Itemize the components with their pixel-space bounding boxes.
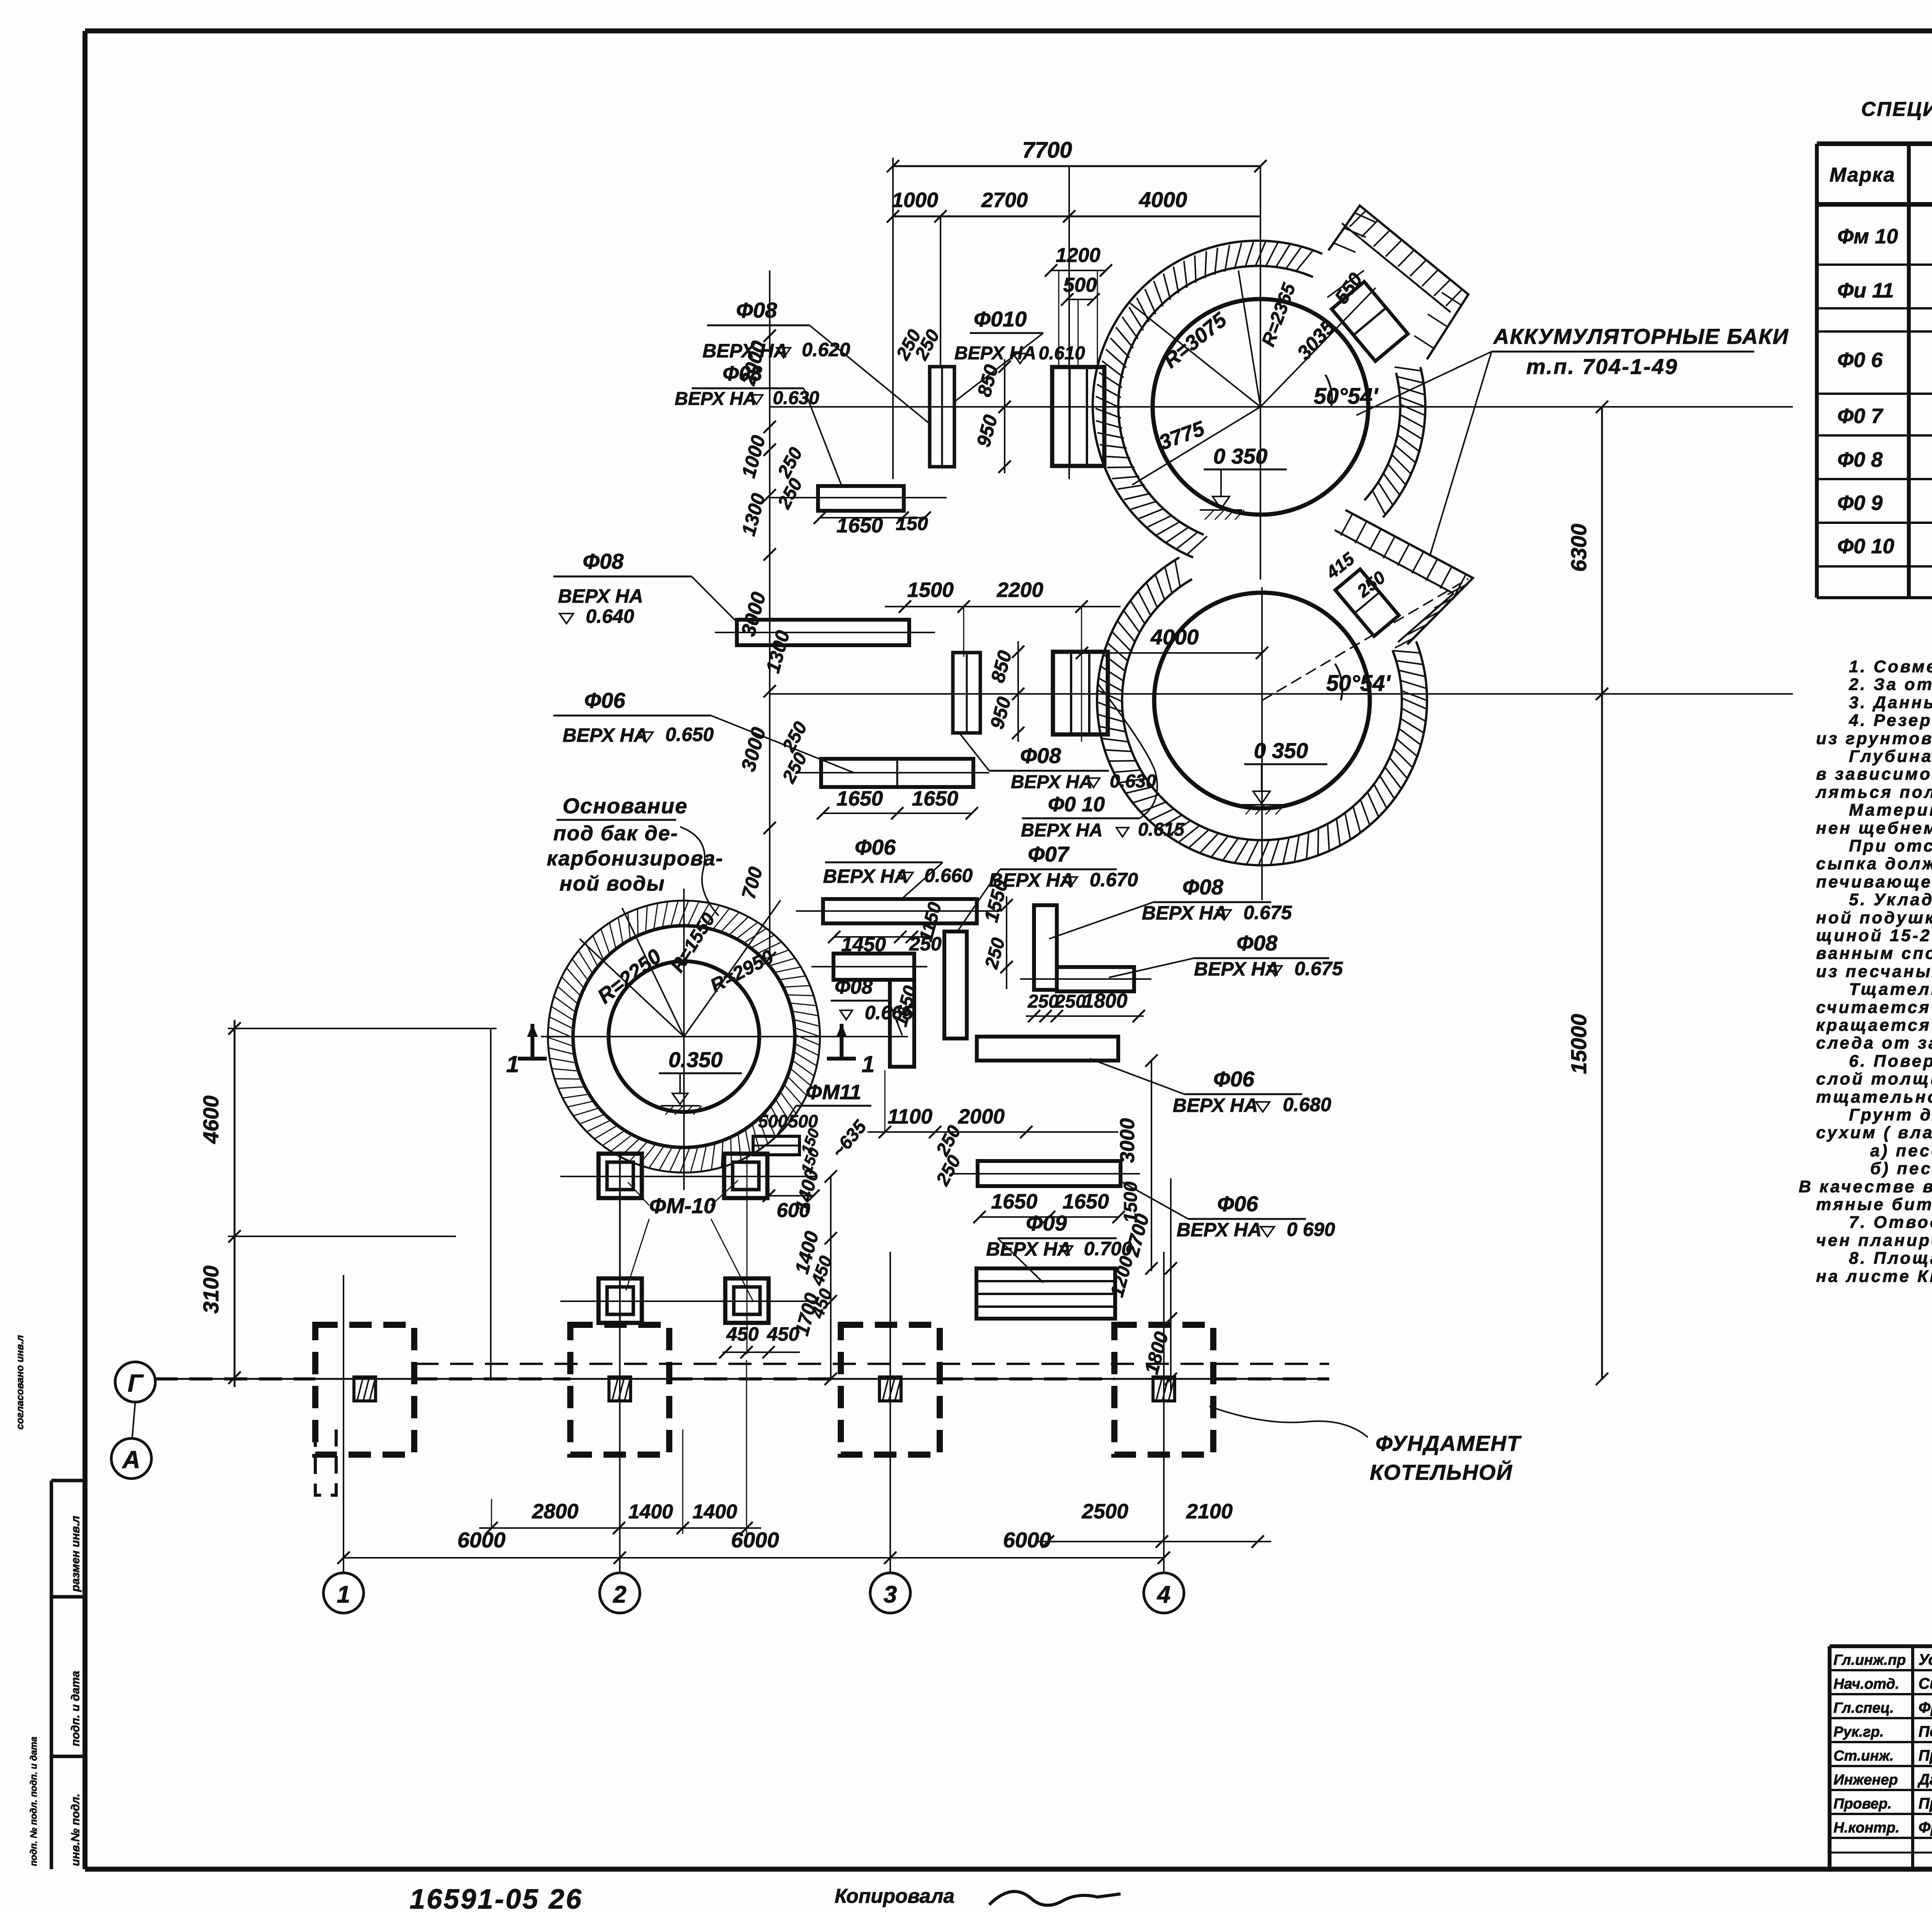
svg-text:Дацкевич: Дацкевич [1917,1771,1932,1788]
axis verticals [343,1275,344,1573]
svg-text:Ф08: Ф08 [1020,743,1061,768]
svg-text:Ф010: Ф010 [974,307,1027,331]
svg-text:Пронина: Пронина [1918,1747,1932,1764]
svg-text:1400: 1400 [628,1501,673,1523]
ФМ-10 pads (4 squares) [599,1154,642,1198]
rect K [978,1161,1121,1186]
svg-text:Ф0 6: Ф0 6 [1837,348,1883,372]
svg-text:Ф06: Ф06 [1213,1067,1255,1091]
section marks 1-1 [531,1024,534,1059]
svg-text:Ф08: Ф08 [1182,875,1224,899]
svg-text:ванным способом. Укатка песч: ванным способом. Укатка песчаной подушки… [1816,944,1932,963]
svg-text:1400: 1400 [692,1501,737,1523]
svg-text:Ф09: Ф09 [1026,1211,1067,1235]
tank 1 upper-right bay [1328,206,1468,359]
svg-text:4. Резервуары устанавливаются: 4. Резервуары устанавливаются на искусст… [1849,711,1932,730]
boiler foundation square 3 [841,1325,940,1455]
svg-text:ной подушки должна производ: ной подушки должна производиться горизон… [1816,908,1932,927]
svg-text:Ф0 10: Ф0 10 [1837,535,1894,558]
svg-text:печивающей сток воды из по: печивающей сток воды из под песчаной под… [1816,872,1932,891]
tank 2 bay pad rectangle [1335,569,1399,636]
svg-text:под бак де-: под бак де- [553,822,679,845]
svg-text:подп. № подл. подп. и дата: подп. № подл. подп. и дата [29,1737,39,1866]
svg-text:Ф06: Ф06 [855,835,896,859]
svg-text:Грунт для приготовления гидр: Грунт для приготовления гидроизоляционно… [1849,1105,1932,1124]
svg-text:Ускова: Ускова [1918,1651,1932,1668]
svg-text:Френкель: Френкель [1918,1699,1932,1716]
svg-text:1100: 1100 [888,1105,932,1128]
leaders from ФМ-10 label [628,1182,649,1205]
left dim chain 4600/3100 [234,1020,236,1387]
dims 1450 250 [834,936,927,938]
svg-text:инв.№ подл.: инв.№ подл. [69,1793,82,1866]
svg-text:0.630: 0.630 [773,388,819,408]
svg-text:8. Площадка для бака декарб: 8. Площадка для бака декарбонизированной… [1849,1249,1932,1268]
svg-text:1800: 1800 [1083,990,1128,1012]
svg-text:из песчаных грунтов должна: из песчаных грунтов должна производиться… [1816,962,1932,981]
svg-text:Г: Г [128,1369,144,1397]
vertical 3000 dim right [1118,1037,1119,1190]
svg-text:Ф08: Ф08 [1236,931,1278,955]
svg-text:1500: 1500 [907,578,954,602]
svg-text:6000: 6000 [731,1528,779,1552]
svg-text:2000: 2000 [958,1105,1005,1128]
sheet border frame [85,29,1932,34]
svg-text:Фи 11: Фи 11 [1837,279,1894,302]
secondary dashed line [415,1363,1329,1365]
svg-text:0.630: 0.630 [1110,771,1156,792]
svg-text:1: 1 [862,1051,874,1077]
lower foundation pair Q1 Q2 [953,653,980,733]
right dim 6300 / 15000 [1601,407,1603,1379]
svg-text:Ф0 8: Ф0 8 [1837,448,1883,471]
rect I (vert + arm) [1034,905,1057,990]
svg-text:При отсыпке основания на г: При отсыпке основания на глинистых грунт… [1849,836,1932,855]
decarbonized water tank base circle [609,961,759,1112]
svg-text:50°54': 50°54' [1326,671,1391,696]
svg-text:ФУНДАМЕНТ: ФУНДАМЕНТ [1376,1431,1522,1455]
svg-text:слой толщиной 10 см, которы: слой толщиной 10 см, который приготовляе… [1816,1069,1932,1088]
svg-text:считается - достаточным, когд: считается - достаточным, когда при работ… [1816,998,1932,1017]
svg-text:0.610: 0.610 [1039,343,1085,364]
svg-text:500: 500 [1063,274,1097,296]
inter-tank chevron band [1345,510,1473,644]
svg-text:СПЕЦИФИКАЦИЯ К МАРКИРОВОЧНЫМ: СПЕЦИФИКАЦИЯ К МАРКИРОВОЧНЫМ СХЕМАМ, РАС… [1861,98,1932,121]
svg-text:Ф0 7: Ф0 7 [1837,405,1884,428]
tank 2 (lower) ring [1097,558,1427,865]
svg-text:500: 500 [758,1111,788,1131]
left vertical dim chain x=1992 [769,270,770,958]
tank 1 bay pad rectangle [1332,282,1408,361]
svg-text:0.640: 0.640 [586,605,634,627]
tank 2 radial dims [1262,579,1468,700]
svg-text:Гл.инж.пр: Гл.инж.пр [1833,1652,1906,1668]
rect H (L-shape) [833,954,914,980]
svg-text:нен щебнем.: нен щебнем. [1816,819,1932,838]
svg-text:6000: 6000 [457,1528,506,1552]
tank 1 inner circle [1153,299,1368,515]
upper foundation pair P1 P2 [930,367,954,467]
svg-text:Провер.: Провер. [1833,1796,1892,1812]
svg-text:3: 3 [884,1581,897,1608]
signoff table [1830,1644,1932,1648]
tank centerlines [1260,166,1261,580]
dim 850/950 upper [1004,359,1005,473]
svg-text:ВЕРХ НА: ВЕРХ НА [675,389,757,409]
svg-text:0 350: 0 350 [1254,738,1308,763]
svg-text:сухим ( влажность 3%) и име: сухим ( влажность 3%) и иметь следующий … [1816,1123,1932,1142]
rect D 1650/1650 upper [821,759,973,787]
svg-text:1: 1 [337,1581,350,1608]
main axis Г line [155,1378,1329,1380]
dims 1650 1650 K [980,1216,1119,1218]
svg-text:2800: 2800 [532,1500,578,1523]
svg-text:0.675: 0.675 [1294,958,1343,979]
svg-text:кращается выпирание „волны" г: кращается выпирание „волны" грунта перед… [1816,1016,1932,1035]
dim 1500/2200 row [885,606,1121,607]
svg-text:2100: 2100 [1186,1500,1233,1523]
left circle centerlines [541,1036,908,1037]
svg-text:7700: 7700 [1022,138,1072,163]
svg-text:0.615: 0.615 [1138,819,1185,840]
svg-text:0.660: 0.660 [924,865,973,886]
svg-text:В качестве вяжущего вещества: В качестве вяжущего вещества могут приме… [1799,1177,1932,1196]
accumulator tank 1 (upper) ring [1093,241,1322,558]
svg-text:карбонизирова-: карбонизирова- [547,847,724,870]
dim row 2800/1400/1400 [479,1527,761,1529]
svg-text:6000: 6000 [1003,1528,1051,1552]
svg-text:6. Поверх песчаной подушки: 6. Поверх песчаной подушки укладывается … [1849,1052,1932,1071]
svg-text:согласовано инв.л: согласовано инв.л [14,1335,26,1430]
svg-text:Марка: Марка [1830,164,1896,186]
left circle radial labels [580,939,684,1037]
svg-text:2700: 2700 [981,189,1028,212]
dim row 2500/2100 [1036,1541,1271,1542]
dims 1200 500 [1051,270,1106,271]
svg-text:1650: 1650 [1063,1190,1109,1213]
svg-text:450: 450 [767,1323,799,1345]
svg-text:0.675: 0.675 [1243,902,1292,923]
svg-text:3100: 3100 [199,1265,223,1314]
spec table grid [1817,141,1932,146]
svg-text:0.620: 0.620 [802,339,850,360]
svg-text:Инженер: Инженер [1833,1772,1898,1788]
svg-text:5. Укладка грунта при устро: 5. Укладка грунта при устройстве грунтов… [1849,890,1932,909]
boiler foundation square 2 [570,1325,669,1455]
svg-text:1650: 1650 [837,514,883,537]
svg-text:ВЕРХ НА: ВЕРХ НА [1177,1219,1262,1241]
dims 600 / 450 450 [769,1195,813,1197]
svg-text:15000: 15000 [1566,1014,1591,1074]
svg-text:ВЕРХ НА: ВЕРХ НА [1173,1095,1258,1116]
svg-text:ФМ-10: ФМ-10 [649,1193,716,1218]
svg-text:ляться полностью.: ляться полностью. [1815,783,1932,802]
svg-text:4: 4 [1156,1581,1170,1608]
dim row 6000s [344,1557,1164,1559]
svg-text:0 350: 0 350 [1213,444,1267,468]
top dim chain 7700 [893,165,1260,167]
svg-text:Ф0 10: Ф0 10 [1048,793,1105,816]
notch on square 1 [315,1430,336,1495]
svg-text:Симонов: Симонов [1918,1675,1932,1692]
svg-text:Н.контр.: Н.контр. [1833,1820,1900,1836]
svg-text:Ф08: Ф08 [835,976,873,998]
svg-text:ВЕРХ НА: ВЕРХ НА [1194,958,1279,980]
rect F [823,899,977,923]
svg-text:размен инв.л: размен инв.л [69,1516,82,1592]
svg-text:450: 450 [726,1323,759,1345]
svg-text:Ф0 9: Ф0 9 [1837,491,1883,515]
svg-text:Ф08: Ф08 [736,298,777,322]
svg-text:150: 150 [896,513,928,534]
svg-text:Френкель: Френкель [1918,1819,1932,1836]
svg-text:7. Отвод поверхностных вод: 7. Отвод поверхностных вод от резервуаро… [1849,1213,1932,1232]
svg-text:в зависимости от мощности р: в зависимости от мощности растительного … [1816,765,1932,784]
svg-text:тяные битумы, гудроны и маз: тяные битумы, гудроны и мазуты [1816,1195,1932,1214]
svg-text:Основание: Основание [563,794,688,818]
rect C with 1650/150 dims [818,486,904,511]
svg-text:1000: 1000 [892,189,938,212]
svg-text:2. За отметку 0.000 принята: 2. За отметку 0.000 принята отметка чист… [1849,675,1932,694]
svg-text:КОТЕЛЬНОЙ: КОТЕЛЬНОЙ [1370,1460,1513,1484]
svg-text:0.650: 0.650 [665,724,714,745]
svg-text:из грунтовой подсыпки, песча: из грунтовой подсыпки, песчаной подушки … [1816,729,1932,748]
boiler foundation square 1 [315,1325,414,1455]
svg-text:сыпка должна выполняться из: сыпка должна выполняться из тех же грунт… [1816,854,1932,873]
svg-text:Фм 10: Фм 10 [1837,225,1898,248]
rect L (Ф09 stack) [976,1268,1115,1319]
svg-text:1200: 1200 [1056,244,1100,267]
svg-text:Ф06: Ф06 [1217,1192,1259,1216]
svg-text:ной воды: ной воды [560,872,665,895]
svg-text:Ф07: Ф07 [1028,842,1070,866]
axis circles 1-4 [323,1573,364,1613]
svg-text:Пронина: Пронина [1918,1795,1932,1812]
svg-text:16591-05 26: 16591-05 26 [410,1884,583,1912]
svg-text:ВЕРХ НА: ВЕРХ НА [563,724,648,746]
svg-text:Глубина заложения грунтовой: Глубина заложения грунтовой подсыпки под… [1849,747,1932,766]
svg-text:4000: 4000 [1150,625,1199,649]
svg-text:ФМ11: ФМ11 [806,1081,861,1104]
svg-text:6300: 6300 [1566,524,1591,572]
dims 1100 2000 [867,1131,1118,1133]
horizontal refs through FM10 [560,1176,815,1177]
svg-text:б) песчаные и глинистые ча: б) песчаные и глинистые частицы менее 0.… [1870,1159,1932,1178]
svg-text:ВЕРХ НА: ВЕРХ НА [558,585,643,607]
rect R064 [737,620,909,645]
svg-text:Ст.инж.: Ст.инж. [1833,1748,1894,1764]
ФМ11 pad [753,1136,799,1155]
svg-text:Ф06: Ф06 [584,688,626,712]
svg-text:50°54': 50°54' [1314,384,1379,409]
svg-text:а) песок крупностью 0.1-2: а) песок крупностью 0.1-2 мм- от 60 до 8… [1870,1141,1932,1160]
svg-text:чен планировкой, устройством: чен планировкой, устройством отводных и … [1816,1231,1932,1250]
svg-text:А: А [122,1446,140,1474]
axis Г and А circles [115,1362,155,1402]
svg-text:Полякова: Полякова [1918,1723,1932,1740]
svg-text:250: 250 [1027,991,1059,1012]
svg-text:АККУМУЛЯТОРНЫЕ БАКИ: АККУМУЛЯТОРНЫЕ БАКИ [1493,324,1789,348]
svg-text:2200: 2200 [997,578,1043,602]
svg-text:щиной 15-20 см с тщательным: щиной 15-20 см с тщательным послойным. у… [1816,926,1932,945]
svg-text:1650: 1650 [991,1190,1037,1213]
svg-text:3000: 3000 [1116,1118,1139,1163]
svg-text:500: 500 [788,1111,818,1131]
svg-text:следа от задних вальцев со: следа от задних вальцев составит не боле… [1816,1033,1932,1052]
dashed connectors [155,1377,315,1380]
svg-text:Нач.отд.: Нач.отд. [1833,1676,1899,1692]
svg-text:Рук.гр.: Рук.гр. [1833,1724,1884,1740]
tank 1 radial dims [1130,303,1260,407]
svg-text:1: 1 [506,1051,519,1077]
svg-text:0.350: 0.350 [668,1047,723,1072]
svg-text:ВЕРХ НА: ВЕРХ НА [1021,820,1103,841]
svg-text:тщательно перемешанного с в: тщательно перемешанного с вяжущим вещест… [1816,1088,1932,1107]
svg-text:Тщательность уплотнения долж: Тщательность уплотнения должна контролир… [1849,980,1932,999]
svg-text:на листе КМ-9.: на листе КМ-9. [1816,1267,1932,1286]
svg-text:1. Совместно с данным листом: 1. Совместно с данным листом см. лист КЖ… [1849,657,1932,676]
svg-text:4600: 4600 [199,1095,223,1144]
svg-text:ВЕРХ НА: ВЕРХ НА [986,1238,1071,1260]
svg-text:Ф08: Ф08 [583,549,624,573]
svg-text:3. Данные по грунту см. ли: 3. Данные по грунту см. лист КЖ-4 [1849,693,1932,712]
rect J [977,1037,1118,1061]
svg-text:ВЕРХ НА: ВЕРХ НА [1011,772,1093,792]
svg-text:0.670: 0.670 [1090,869,1138,891]
dim 850/950 lower [1017,641,1019,742]
left stamp column boxes [51,1479,85,1482]
dims 250 250 1800 [1026,1015,1144,1017]
svg-text:Материковый грунт под грунт: Материковый грунт под грунтовой подсыпко… [1849,801,1932,819]
svg-text:1650: 1650 [912,787,958,810]
svg-text:0 690: 0 690 [1287,1219,1335,1240]
svg-text:т.п. 704-1-49: т.п. 704-1-49 [1526,354,1678,379]
svg-text:2500: 2500 [1082,1500,1128,1523]
svg-text:250: 250 [1054,991,1086,1012]
tank 2 inner circle [1154,593,1370,808]
svg-text:Гл.спец.: Гл.спец. [1833,1700,1894,1716]
svg-text:Копировала: Копировала [835,1885,954,1907]
svg-text:1650: 1650 [837,787,883,810]
rect G [944,932,967,1039]
svg-text:0.680: 0.680 [1283,1094,1331,1115]
svg-text:2: 2 [613,1581,626,1608]
svg-text:4000: 4000 [1139,187,1187,212]
svg-text:ВЕРХ НА: ВЕРХ НА [1142,902,1227,924]
svg-text:ВЕРХ НА: ВЕРХ НА [823,865,908,887]
boiler foundation square 4 [1114,1325,1213,1455]
svg-text:подп. и дата: подп. и дата [69,1671,82,1746]
